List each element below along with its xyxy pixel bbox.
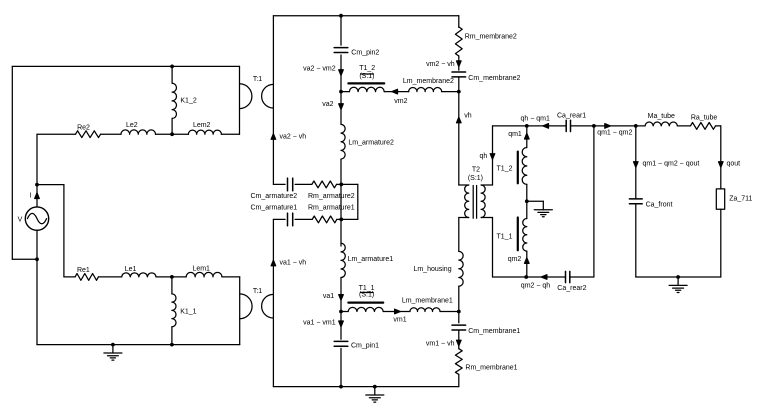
svg-text:I: I: [29, 192, 31, 199]
label Cm_pin2: [351, 50, 379, 57]
svg-text:Cm_membrane2: Cm_membrane2: [468, 75, 520, 82]
svg-text:va1 − vm1: va1 − vm1: [303, 320, 336, 327]
resistor Rm_membrane1: [455, 349, 462, 375]
ground center tap: [534, 201, 552, 217]
wire Lem1-corner: [222, 276, 240, 278]
svg-text:T1_1: T1_1: [497, 234, 513, 241]
wire center rail seg7: [340, 348, 342, 386]
inductor Lm_housing: [459, 251, 463, 286]
label Ra_tube: [691, 115, 718, 122]
ground right: [669, 277, 687, 293]
label Cm_membrane2: [468, 75, 520, 82]
wire center rail seg1: [340, 16, 342, 45]
current arrow qm1: [525, 133, 530, 139]
current arrow va1-vm1: [339, 321, 344, 327]
label Lm_membrane2: [403, 78, 454, 85]
label T2 ratio: [468, 175, 483, 182]
svg-text:Lm_housing: Lm_housing: [413, 266, 451, 273]
transformer T1_2 secondary core bar: [517, 152, 519, 184]
wire center rail seg3: [340, 92, 342, 125]
wire T1_1 coil lead: [341, 311, 348, 313]
label T1_1: [359, 285, 375, 292]
current arrow qh-qm1: [543, 124, 549, 129]
current arrow qm1-qm2-qout: [634, 162, 639, 168]
wire outer-to-source jog: [12, 258, 37, 260]
svg-text:Le2: Le2: [126, 122, 138, 129]
label va2: [322, 101, 333, 108]
label K1_1: [180, 308, 196, 315]
inductor Lm_armature2: [341, 124, 345, 159]
inductor Lem2: [188, 130, 221, 134]
wire bottom-left: [37, 344, 240, 346]
svg-text:Cm_armature1: Cm_armature1: [251, 205, 298, 212]
label Re1: [77, 267, 90, 274]
wire T1_2 to vm2: [384, 91, 409, 93]
svg-text:Lem1: Lem1: [192, 266, 210, 273]
transformer T1_1 secondary core bar: [517, 218, 519, 251]
label Lm_membrane1: [402, 298, 453, 305]
node source-bottom: [35, 257, 39, 261]
label T:1 bottom: [253, 288, 262, 295]
wire center rail seg6: [340, 312, 342, 340]
svg-text:Cm_armature2: Cm_armature2: [251, 193, 298, 200]
wire Ca_front rail upper: [635, 126, 637, 198]
label T1_2 secondary: [497, 165, 513, 172]
label Re2: [77, 125, 90, 132]
resistor Ra_tube: [690, 123, 715, 130]
label vh: [464, 113, 472, 120]
label Cm_membrane1: [468, 328, 520, 335]
resistor Rm_membrane2: [455, 27, 462, 56]
svg-text:qm1 − qm2 − qout: qm1 − qm2 − qout: [643, 161, 700, 168]
current arrow va2: [339, 104, 344, 110]
label vm1 - vh: [426, 340, 455, 347]
node ground-right junction: [676, 275, 680, 279]
current arrow qm2-qh: [541, 275, 547, 280]
current arrow vm1-vh: [457, 340, 462, 346]
node vm1 junction: [457, 310, 461, 314]
svg-text:Ra_tube: Ra_tube: [691, 115, 718, 122]
wire Re2 lead: [37, 133, 76, 135]
label Ca_front: [646, 202, 673, 209]
wire qm loop bottom right: [570, 276, 594, 278]
label vm2: [394, 98, 407, 105]
wire left rail upper (va2-vh): [272, 16, 274, 185]
svg-text:qm2: qm2: [508, 256, 522, 263]
svg-text:vm2: vm2: [394, 98, 407, 105]
resistor Rm_armature1: [312, 216, 337, 223]
label qm2 - qh: [521, 282, 550, 289]
wire left rail lower (va1-vh): [272, 219, 274, 386]
current arrow va1: [339, 295, 344, 301]
svg-text:Re2: Re2: [77, 125, 90, 132]
label va1 - vh: [280, 260, 307, 267]
wire qm loop top right: [571, 125, 636, 127]
svg-text:vm2 − vh: vm2 − vh: [426, 61, 455, 68]
svg-text:Lm_armature2: Lm_armature2: [348, 140, 394, 147]
node armature upper: [339, 183, 343, 187]
inductor Lm_armature1: [341, 243, 345, 277]
svg-text:T1_2: T1_2: [497, 165, 513, 172]
label T1_1 secondary: [497, 234, 513, 241]
wire qm2 branch bottom: [526, 251, 528, 277]
label va1 - vm1: [303, 320, 336, 327]
svg-text:T1_2: T1_2: [359, 65, 375, 72]
transformer T2 primary winding: [459, 185, 469, 218]
wire qm loop bottom: [493, 276, 566, 278]
label Lm_armature1: [348, 256, 394, 263]
current arrow va1-vh: [271, 260, 276, 266]
inductor T1_1 secondary winding: [523, 219, 527, 252]
inductor Le2: [121, 130, 155, 134]
svg-text:Re1: Re1: [77, 267, 90, 274]
svg-text:Cm_pin2: Cm_pin2: [351, 50, 379, 57]
node ground-left junction: [111, 343, 115, 347]
label I: [29, 192, 31, 199]
svg-text:Ca_rear2: Ca_rear2: [557, 285, 586, 292]
wire armature lower branch right: [337, 218, 358, 220]
wire Lm_membrane1-rail: [440, 311, 459, 313]
wire armature upper branch left: [273, 183, 285, 185]
wire T1-top primary rail: [239, 66, 241, 134]
svg-text:K1_2: K1_2: [180, 97, 196, 104]
wire center rail seg5: [340, 278, 342, 312]
label qm1: [508, 131, 522, 138]
wire armature lower branch mid: [295, 218, 312, 220]
label Rm_armature2: [308, 193, 355, 200]
capacitor Ca_rear2: [566, 271, 570, 282]
wire qm loop left rail lower: [492, 218, 494, 278]
svg-text:vm1: vm1: [393, 316, 406, 323]
current arrow vm2: [392, 89, 398, 94]
current arrow va2-vh: [271, 134, 276, 140]
label Lem1: [192, 266, 210, 273]
wire armature bridge right edge: [357, 184, 359, 219]
ground middle: [366, 387, 384, 403]
label T1_2: [359, 65, 375, 72]
node qm1 top: [525, 124, 529, 128]
wire top-left loop top: [12, 65, 239, 67]
transformer T:1 bottom secondary arc: [262, 294, 274, 318]
transformer T:1 top secondary arc: [262, 84, 274, 108]
label V: [18, 216, 23, 223]
current arrow qm1-qm2: [605, 124, 611, 129]
svg-text:Rm_membrane2: Rm_membrane2: [465, 33, 517, 40]
label Lem2: [193, 122, 211, 129]
wire Lem2-corner: [221, 133, 239, 135]
inductor Lem1: [186, 272, 222, 276]
transformer T:1 top primary arc: [240, 84, 252, 109]
wire Re1 lead: [64, 276, 75, 278]
node T1_2 junction: [339, 90, 343, 94]
svg-text:qh: qh: [480, 153, 488, 160]
wire Le2-node: [156, 133, 173, 135]
wire middle top: [273, 15, 458, 17]
inductor Lm_membrane2: [409, 87, 442, 91]
inductor Lm_membrane1: [410, 308, 440, 312]
node K1_2 top: [170, 65, 174, 69]
svg-text:va1 − vh: va1 − vh: [280, 260, 307, 267]
wire T1_2 coil lead: [341, 91, 349, 93]
wire armature lower branch left: [273, 218, 285, 220]
label qh - qm1: [521, 115, 550, 122]
wire Re1-Le1: [98, 276, 121, 278]
wire Re2-Le2: [101, 133, 121, 135]
capacitor Cm_pin1: [334, 341, 348, 346]
wire Le1-node: [156, 276, 172, 278]
capacitor Cm_armature2: [288, 178, 293, 191]
label T:1 top: [253, 76, 262, 83]
svg-text:Ma_tube: Ma_tube: [648, 113, 675, 120]
wire center rail seg4: [340, 159, 342, 246]
svg-text:qm2 − qh: qm2 − qh: [521, 282, 550, 289]
label va1: [323, 293, 334, 300]
inductor Ma_tube: [645, 122, 677, 126]
label va2 - vh: [280, 133, 307, 140]
transformer T:1 bottom primary arc: [240, 294, 252, 319]
wire source-top to Re1 rail: [37, 185, 64, 277]
wire Ca_front rail lower: [635, 204, 637, 277]
label qout: [727, 161, 741, 168]
label K1_2: [180, 97, 196, 104]
inductor K1_1: [172, 277, 176, 345]
wire right rail seg3: [458, 77, 460, 185]
capacitor Cm_armature1: [288, 213, 293, 226]
transformer T2 core: [473, 186, 476, 219]
svg-text:qm1 − qm2: qm1 − qm2: [597, 129, 632, 136]
svg-text:va2 − vm2: va2 − vm2: [303, 65, 336, 72]
resistor Re1: [75, 274, 98, 281]
wire Re2 row left vertical: [36, 134, 38, 184]
node T1 center tap: [525, 199, 529, 203]
node K1_2 bottom: [170, 132, 174, 136]
wire node-Lem1: [172, 276, 186, 278]
node Ca_rear1 right: [592, 124, 596, 128]
capacitor Ca_front: [629, 199, 642, 204]
wire right rail seg5: [458, 286, 460, 323]
svg-text:V: V: [18, 216, 23, 223]
label qh: [480, 153, 488, 160]
wire right rail seg7: [458, 330, 460, 349]
wire right rail seg4: [458, 218, 460, 252]
wire T1 center segment: [526, 184, 528, 218]
node K1_1 bottom: [170, 343, 174, 347]
voltage source V1: [25, 185, 48, 345]
capacitor Cm_membrane1: [452, 325, 466, 330]
label T1_1 ratio: [359, 292, 374, 299]
capacitor Cm_pin2: [334, 48, 348, 53]
wire middle bottom: [273, 386, 458, 388]
label Ca_rear2: [557, 285, 586, 292]
label vm1: [393, 316, 406, 323]
current arrow qm2: [525, 258, 530, 264]
label T2: [472, 167, 480, 174]
svg-text:va2: va2: [322, 101, 333, 108]
svg-text:Za_711: Za_711: [729, 195, 752, 202]
label Le1: [125, 266, 137, 273]
capacitor Cm_membrane2: [452, 72, 466, 77]
svg-text:Cm_pin1: Cm_pin1: [351, 342, 379, 349]
svg-text:(S:1): (S:1): [468, 175, 483, 182]
label Le2: [126, 122, 138, 129]
wire Za rail lower: [720, 209, 722, 277]
svg-text:Cm_membrane1: Cm_membrane1: [468, 328, 520, 335]
label vm2 - vh: [426, 61, 455, 68]
svg-text:Ca_rear1: Ca_rear1: [557, 113, 586, 120]
node vh junction top: [457, 90, 461, 94]
label qm1 - qm2 - qout: [643, 161, 700, 168]
current arrow qh: [490, 154, 495, 160]
wire Lm_membrane2-rail: [442, 91, 459, 93]
svg-text:T:1: T:1: [253, 76, 262, 83]
label Za_711: [729, 195, 752, 202]
wire Ma_tube lead: [636, 125, 645, 127]
wire output bottom: [636, 276, 721, 278]
svg-text:qout: qout: [727, 161, 741, 168]
svg-text:Rm_armature1: Rm_armature1: [308, 205, 355, 212]
wire right rail seg2: [458, 56, 460, 70]
label Ca_rear1: [557, 113, 586, 120]
wire right rail bottom lead: [458, 374, 460, 386]
wire armature upper branch mid: [295, 183, 312, 185]
label Cm_armature2: [251, 193, 298, 200]
resistor Re2: [76, 131, 101, 138]
wire center rail seg2: [340, 55, 342, 92]
svg-text:vh: vh: [464, 113, 472, 120]
label va2 - vm2: [303, 65, 336, 72]
current arrow va2-vm2: [339, 70, 344, 76]
svg-text:vm1 − vh: vm1 − vh: [426, 340, 455, 347]
label Cm_armature1: [251, 205, 298, 212]
ground left: [104, 345, 122, 361]
svg-text:Ca_front: Ca_front: [646, 202, 673, 209]
svg-text:Le1: Le1: [125, 266, 137, 273]
wire qm loop right rail: [593, 126, 595, 277]
inductor T1_2 secondary winding: [522, 148, 527, 185]
svg-text:qh − qm1: qh − qm1: [521, 115, 550, 122]
node K1_1 top: [170, 275, 174, 279]
wire node-Lem2: [172, 133, 188, 135]
wire Za rail upper: [720, 126, 722, 189]
label Rm_armature1: [308, 205, 355, 212]
label Rm_membrane1: [465, 365, 517, 372]
svg-text:va1: va1: [323, 293, 334, 300]
svg-text:Rm_armature2: Rm_armature2: [308, 193, 355, 200]
node Ca_front top: [634, 124, 638, 128]
svg-text:Rm_membrane1: Rm_membrane1: [465, 365, 517, 372]
current arrow I: [35, 193, 40, 199]
label Ma_tube: [648, 113, 675, 120]
node ground-middle junction: [373, 385, 377, 389]
wire armature upper branch right: [337, 183, 358, 185]
current arrow vh: [457, 117, 462, 123]
node armature lower: [339, 218, 343, 222]
svg-text:K1_1: K1_1: [180, 308, 196, 315]
impedance Za_711: [716, 189, 724, 209]
node T1_1 junction: [339, 310, 343, 314]
inductor K1_2: [172, 66, 176, 134]
node source-top: [35, 183, 39, 187]
inductor Le1: [122, 273, 156, 277]
label Rm_membrane2: [465, 33, 517, 40]
transformer T1_1 core bar: [348, 302, 383, 304]
label Cm_pin1: [351, 342, 379, 349]
svg-text:Lm_membrane2: Lm_membrane2: [403, 78, 454, 85]
svg-text:Lem2: Lem2: [193, 122, 211, 129]
current arrow vm2-vh: [457, 61, 462, 67]
node Cm_pin2 top: [339, 14, 343, 18]
label qm1 - qm2: [597, 129, 632, 136]
label T1_2 ratio: [359, 73, 374, 80]
wire outer left vertical: [11, 66, 13, 259]
svg-text:T:1: T:1: [253, 288, 262, 295]
node Cm_pin1 bottom: [339, 385, 343, 389]
wire T1-bottom primary rail: [239, 277, 241, 345]
wire T1_1 to vm1: [383, 311, 410, 313]
wire center tap to ground: [527, 200, 544, 202]
svg-text:T2: T2: [472, 167, 480, 174]
svg-text:qm1: qm1: [508, 131, 522, 138]
svg-text:va2 − vh: va2 − vh: [280, 133, 307, 140]
node qm2 bottom: [524, 275, 528, 279]
wire qm loop left rail upper: [492, 126, 494, 185]
wire Ma-Ra: [677, 125, 690, 127]
capacitor Ca_rear1: [566, 120, 570, 131]
transformer T2 secondary winding: [481, 185, 492, 218]
label Lm_housing: [413, 266, 451, 273]
resistor Rm_armature2: [312, 181, 337, 188]
wire qm loop top: [493, 125, 566, 127]
current arrow qout: [719, 162, 724, 168]
wire qm1 branch top: [526, 126, 528, 148]
label Lm_armature2: [348, 140, 394, 147]
wire Ra-corner: [716, 125, 721, 127]
label qm2: [508, 256, 522, 263]
inductor T1_2 winding: [349, 87, 384, 91]
svg-text:Lm_membrane1: Lm_membrane1: [402, 298, 453, 305]
current arrow vm1: [395, 309, 401, 314]
wire right rail top lead: [458, 16, 460, 28]
transformer T1_2 core bar: [348, 82, 384, 84]
svg-text:Lm_armature1: Lm_armature1: [348, 256, 394, 263]
inductor T1_1 winding: [348, 307, 383, 311]
